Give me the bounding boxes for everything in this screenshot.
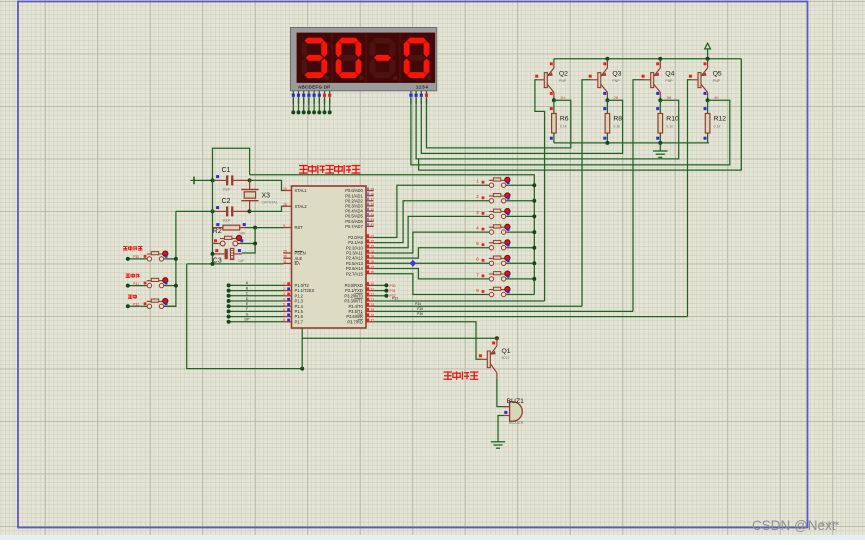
wire key 8 to common	[506, 294, 534, 296]
wire R2 to RST pin	[255, 227, 283, 229]
junction key common row2	[174, 284, 178, 288]
svg-text:39: 39	[370, 187, 374, 191]
svg-text:20pF: 20pF	[223, 218, 232, 222]
junction R2/RST	[253, 226, 257, 230]
wire P2.1 to key 2	[374, 201, 489, 243]
wire ground terminal to node	[194, 179, 213, 181]
svg-text:37: 37	[370, 198, 374, 202]
svg-text:R8: R8	[613, 116, 622, 123]
wire C1/X3 node to XTAL1	[250, 180, 284, 190]
wire key 6 to common	[506, 262, 534, 264]
svg-text:P34: P34	[415, 302, 421, 306]
capacitor C3 (electrolytic)	[213, 248, 245, 264]
ground distribution wire to key common	[250, 175, 535, 295]
junction C2 left	[211, 209, 215, 213]
node 4H junction	[706, 98, 710, 102]
wire net B to P1.1	[229, 290, 284, 292]
key button (left) P31 row	[128, 285, 147, 287]
svg-text:DP: DP	[245, 318, 251, 322]
wire key 5 to common	[506, 247, 534, 249]
display common pins 1-4	[410, 91, 412, 98]
transistor Q3 (PNP)	[589, 62, 622, 98]
wire Q4 base to P3.5 (net P35)	[633, 80, 644, 312]
svg-text:C1: C1	[222, 167, 231, 174]
svg-text:4: 4	[476, 226, 479, 232]
junction on VCC rail at Q3	[605, 57, 609, 61]
wire net G to P1.6	[229, 316, 284, 318]
wire net A to P1.0	[229, 284, 284, 286]
wire display common 2 to node 2H	[421, 98, 622, 154]
svg-text:20pF: 20pF	[223, 187, 232, 191]
wire Q4 collector to node	[659, 97, 661, 100]
svg-text:G: G	[246, 312, 249, 316]
junction key common	[532, 246, 536, 250]
svg-text:35: 35	[370, 208, 374, 212]
svg-text:8: 8	[476, 288, 479, 294]
junction key common	[532, 261, 536, 265]
svg-text:P35: P35	[417, 307, 423, 311]
wire RST branch down	[242, 228, 255, 253]
wire key 2 to common	[506, 200, 534, 202]
svg-text:R12: R12	[714, 116, 727, 123]
node 1H junction	[552, 98, 556, 102]
key button 1	[476, 179, 484, 185]
svg-text:P3.7/RD: P3.7/RD	[347, 319, 363, 324]
wire key 4 to common	[506, 231, 534, 233]
junction key common row1	[174, 257, 178, 261]
svg-text:Q3: Q3	[612, 71, 621, 78]
wire net C to P1.2	[229, 295, 284, 297]
wire P3.4 row (to Q3 base)	[374, 305, 582, 307]
junction on VCC rail at Q4	[658, 57, 662, 61]
svg-text:BUZZER: BUZZER	[509, 421, 524, 425]
wire net P30 from P3.0	[374, 284, 387, 286]
wire net P32 from P3.2	[374, 295, 387, 297]
svg-text:P33: P33	[392, 297, 398, 301]
VCC power terminal arrow	[705, 43, 711, 49]
svg-text:1234: 1234	[416, 85, 429, 90]
key button 2	[476, 194, 484, 200]
svg-text:C2: C2	[222, 198, 231, 205]
svg-text:P30: P30	[390, 284, 396, 288]
wire Q5 collector to node	[707, 97, 709, 100]
transistor Q5 (PNP)	[689, 62, 722, 98]
wire Q3 emitter to VCC rail	[606, 59, 608, 62]
chinese title: MCU minimal system	[299, 165, 308, 174]
key button 7	[476, 272, 484, 278]
wire Q2 emitter to VCC rail	[553, 59, 555, 62]
junction EA/ground vertical	[211, 262, 215, 266]
svg-text:X3: X3	[262, 193, 271, 200]
wire ground run to MCU GND (pin20)	[187, 264, 303, 369]
ground terminal (left of C1)	[193, 177, 195, 185]
junction key common	[532, 199, 536, 203]
junction key common	[532, 230, 536, 234]
junction C1 right / X3 top	[248, 178, 252, 182]
display digit 1: "3"	[305, 38, 325, 44]
MCU left pin stubs and labels	[283, 187, 315, 325]
svg-text:Q2: Q2	[559, 71, 568, 78]
chinese label alarm module	[444, 371, 453, 380]
wire net DP to P1.7	[229, 321, 284, 323]
wire Q1 collector to buzzer	[497, 378, 510, 406]
wire P2.7 to key 8	[374, 274, 489, 295]
wire display common 1 to node 1H	[427, 98, 571, 148]
wire buzzer to ground	[498, 416, 504, 442]
svg-text:1H: 1H	[560, 96, 565, 100]
key button 8	[476, 288, 484, 294]
junction on VCC rail at Q5/power	[706, 57, 710, 61]
wire P2.4 to key 5	[374, 248, 489, 258]
4-digit 7-segment display module	[291, 28, 437, 91]
junction C3 left	[211, 252, 215, 256]
capacitor C2	[213, 198, 250, 222]
svg-text:C: C	[246, 292, 249, 296]
svg-text:BUZ1: BUZ1	[507, 398, 525, 405]
MCU U1 80C51 body	[292, 186, 367, 328]
junction reset button / RST net	[253, 242, 257, 246]
wire P3.6 row (to Q5 base)	[374, 316, 688, 318]
resistor R2	[213, 223, 256, 235]
MCU right pin stubs and labels	[344, 187, 374, 324]
svg-text:0.1k: 0.1k	[666, 125, 673, 129]
key button (left) P32 row	[128, 305, 147, 307]
svg-text:34: 34	[370, 213, 374, 217]
svg-text:0.1k: 0.1k	[560, 125, 567, 129]
wire P3.7 to Q1 base	[374, 322, 482, 360]
svg-text:R6: R6	[560, 116, 569, 123]
svg-text:7: 7	[476, 272, 479, 278]
junction key common	[532, 214, 536, 218]
svg-text:31: 31	[283, 260, 287, 264]
svg-text:36: 36	[370, 203, 374, 207]
chinese label start key	[128, 295, 132, 299]
svg-text:R10: R10	[666, 116, 679, 123]
VCC top rail wire	[554, 58, 741, 60]
wire P2.3 to key 4	[374, 232, 489, 253]
svg-text:D: D	[246, 297, 249, 301]
svg-text:6: 6	[476, 257, 479, 263]
resistor R8	[603, 100, 622, 143]
svg-text:4H: 4H	[714, 96, 719, 100]
svg-text:1: 1	[476, 179, 479, 185]
wire P2.6 to key 7	[374, 269, 489, 279]
chinese label host key	[123, 246, 128, 251]
chinese label set key	[126, 274, 130, 278]
svg-text:2: 2	[476, 194, 479, 200]
svg-text:2H: 2H	[614, 96, 619, 100]
svg-text:Q1: Q1	[502, 348, 511, 355]
junction C2 right / X3 bottom	[247, 209, 251, 213]
key button (left) P30 row	[128, 258, 147, 260]
svg-text:XTAL1: XTAL1	[295, 188, 308, 193]
capacitor C1	[213, 167, 250, 191]
display segment pin wires down to junction dots	[292, 98, 294, 113]
svg-text:PNP: PNP	[665, 79, 673, 83]
transistor Q4 (PNP)	[642, 62, 675, 98]
wire display common 3 to node 3H	[416, 98, 679, 159]
wire left key common vertical	[164, 211, 176, 306]
ground symbol under buzzer	[491, 441, 505, 443]
MCU P1 pin state squares	[287, 282, 290, 321]
wire Q3 collector to node	[606, 97, 608, 100]
svg-text:29: 29	[283, 249, 287, 253]
svg-text:PNP: PNP	[612, 79, 620, 83]
svg-text:30: 30	[283, 255, 287, 259]
junction GND riser	[300, 367, 304, 371]
svg-text:P30: P30	[133, 255, 139, 259]
wire net P31 from P3.1	[374, 290, 387, 292]
svg-text:P1.7: P1.7	[295, 319, 304, 324]
svg-text:18: 18	[283, 203, 287, 207]
VCC rail to Q1 emitter	[302, 337, 497, 339]
junction rail-R8	[605, 141, 609, 145]
wire key 7 to common	[506, 278, 534, 280]
reset push button	[213, 235, 256, 246]
wire net E to P1.4	[229, 305, 284, 307]
svg-text:38: 38	[370, 193, 374, 197]
svg-text:P2.7/A15: P2.7/A15	[346, 271, 364, 276]
svg-text:3: 3	[476, 210, 479, 216]
junction C1 left	[211, 178, 215, 182]
svg-text:CRYSTAL: CRYSTAL	[262, 200, 278, 204]
VCC rail drop wire to distribution row	[419, 59, 742, 170]
wire P3.5 row (to Q4 base)	[374, 310, 633, 312]
svg-text:1uF: 1uF	[238, 259, 245, 263]
svg-text:Q4: Q4	[665, 71, 674, 78]
svg-text:P36: P36	[417, 312, 423, 316]
wire display common 4 to node 4H	[411, 98, 730, 165]
wire C2/X3 node to XTAL2	[249, 206, 283, 211]
display segment pins A-DP with logic-state squares	[292, 91, 294, 98]
wire P3.3 row (to Q2 base)	[374, 300, 545, 302]
wire Q2 base to P3.3 (net P33)	[535, 80, 545, 301]
svg-text:R2: R2	[213, 228, 222, 235]
svg-text:33: 33	[370, 218, 374, 222]
wire key 1 to common	[506, 184, 534, 186]
key button 5	[476, 241, 484, 247]
net junction diamond marker	[410, 260, 417, 267]
key button 3	[476, 210, 484, 216]
junction key common	[532, 183, 536, 187]
wire Q3 base to P3.4 (net P34)	[582, 80, 591, 306]
node 2H junction	[605, 98, 609, 102]
svg-text:3H: 3H	[667, 96, 672, 100]
resistor R12	[704, 100, 727, 143]
svg-text:PNP: PNP	[559, 79, 567, 83]
svg-text:Q5: Q5	[713, 71, 722, 78]
wire Q2 collector to node	[553, 97, 555, 100]
svg-text:PNP: PNP	[713, 79, 721, 83]
wire Q5 emitter to VCC rail	[707, 59, 709, 62]
svg-text:P0.7/AD7: P0.7/AD7	[345, 224, 363, 229]
wire P2.0 to key 1	[374, 185, 489, 237]
wire P2.2 to key 3	[374, 216, 489, 247]
wire EA row to MCU	[187, 263, 284, 265]
resistor R10	[656, 100, 679, 143]
crystal X3	[241, 180, 277, 211]
junction key common	[532, 277, 536, 281]
wire net D to P1.3	[229, 300, 284, 302]
svg-text:100: 100	[239, 231, 245, 235]
ground symbol under R10	[659, 143, 661, 151]
svg-text:P31: P31	[133, 282, 139, 286]
wire Q4 emitter to VCC rail	[659, 59, 661, 62]
wire P2.5 straight to key 6	[374, 262, 489, 264]
transistor Q1 (PNP 8012)	[479, 338, 511, 378]
wire key 3 to common	[506, 215, 534, 217]
node 3H junction	[658, 98, 662, 102]
svg-text:0.1k: 0.1k	[714, 125, 721, 129]
wire loop over C1 (ground net)	[213, 148, 250, 180]
resistor R6	[550, 100, 569, 143]
display digit 3: "-"	[373, 38, 393, 44]
svg-text:32: 32	[370, 223, 374, 227]
wire ground vertical (C1-C2-R2-C3-EA)	[212, 180, 214, 264]
svg-text:19: 19	[283, 187, 287, 191]
svg-text:ABCDEFG DP: ABCDEFG DP	[298, 85, 330, 90]
wire Q5 base to P3.6 (net P36)	[688, 80, 692, 317]
svg-text:✶✶✶: ✶✶✶	[819, 519, 840, 529]
svg-text:P31: P31	[390, 289, 396, 293]
svg-text:0.1k: 0.1k	[613, 125, 620, 129]
resistor bottom rail wire	[554, 142, 709, 144]
svg-text:5: 5	[476, 241, 479, 247]
key button 4	[476, 226, 484, 232]
display digit 4: "0"	[407, 38, 427, 44]
transistor Q2 (PNP)	[535, 62, 568, 98]
display digit 2: "0"	[339, 38, 359, 44]
junction Q1 emitter/VCC	[495, 336, 499, 340]
buzzer BUZ1	[504, 398, 524, 425]
svg-text:P32: P32	[133, 303, 139, 307]
svg-text:8012: 8012	[502, 356, 510, 360]
junction rail-R10	[658, 141, 662, 145]
wire net F to P1.5	[229, 310, 284, 312]
key button 6	[476, 257, 484, 263]
svg-text:RST: RST	[295, 225, 304, 230]
svg-text:XTAL2: XTAL2	[295, 204, 308, 209]
